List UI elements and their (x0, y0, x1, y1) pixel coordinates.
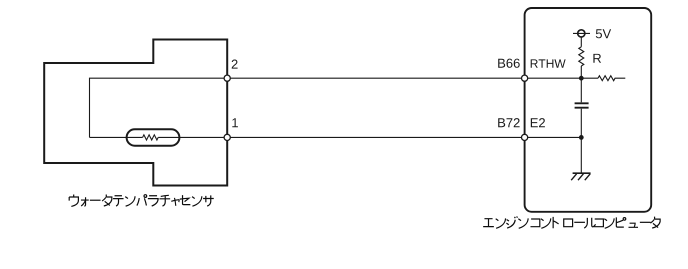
label R (593, 54, 601, 63)
5V supply symbol (573, 30, 590, 37)
wire 5V to resistor R (580, 37, 582, 47)
terminal pin 1 (224, 134, 230, 140)
resistor R zigzag vertical (579, 47, 584, 66)
terminal B72 (522, 134, 528, 140)
label pin 1 (232, 118, 238, 127)
wire pin 1 to ECU B72 (227, 136, 524, 138)
label sensor name (69, 195, 214, 207)
wire R to node RTHW (580, 66, 582, 78)
wire B66 to node (525, 77, 598, 79)
capacitor C1 plates (575, 103, 589, 107)
wire node E2 to ground (580, 137, 582, 173)
ECU box (525, 8, 652, 212)
wire capacitor to node E2 (580, 109, 582, 138)
thermistor body oval (127, 129, 180, 145)
wire pin 2 to ECU B66 (227, 77, 524, 79)
label ECU name (483, 216, 660, 228)
wire top loop from pin 2 (90, 78, 227, 137)
wire node to capacitor (580, 78, 582, 102)
ground symbol (571, 173, 590, 180)
wire to thermistor left lead (90, 136, 143, 138)
junction node RTHW (579, 76, 584, 81)
label B72 (498, 118, 519, 127)
terminal B66 (522, 75, 528, 81)
junction node E2 (579, 135, 584, 140)
wire B72 to node (525, 136, 582, 138)
terminal pin 2 (224, 75, 230, 81)
wire thermistor right lead to pin 1 (158, 136, 226, 138)
label E2 (531, 118, 545, 127)
connector outline (water temp sensor housing) (44, 40, 227, 186)
label B66 (498, 59, 520, 68)
thermistor zigzag element (143, 135, 159, 140)
label pin 2 (232, 60, 238, 69)
label RTHW (531, 59, 566, 67)
resistor pull-down zigzag horizontal (598, 76, 625, 81)
label 5V (596, 29, 611, 38)
